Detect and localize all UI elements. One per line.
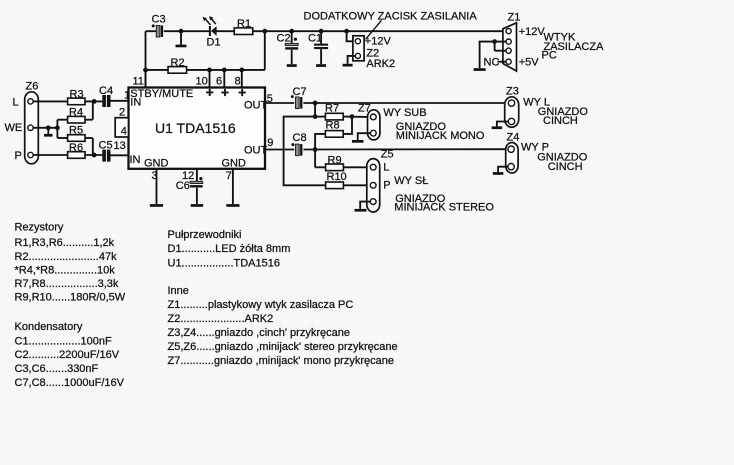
label IN bottom	[130, 154, 141, 166]
pin number 12	[182, 170, 194, 182]
wire node A to R10 route	[284, 117, 326, 186]
svg-text:Z5,Z6......gniazdo ,minijack': Z5,Z6......gniazdo ,minijack' stereo prz…	[168, 341, 398, 353]
ground at Z7	[352, 140, 364, 143]
pin number 3	[152, 170, 158, 182]
resistor R4	[57, 106, 92, 123]
wire Z2 top pin	[344, 29, 355, 41]
connector Z5	[367, 159, 380, 212]
svg-text:Z1: Z1	[508, 12, 521, 24]
capacitor C4	[99, 85, 113, 107]
svg-text:C1.................100nF: C1.................100nF	[15, 336, 112, 348]
svg-text:R5: R5	[69, 125, 83, 137]
wire pin 11 stub	[145, 70, 147, 88]
svg-text:D1: D1	[207, 37, 221, 49]
ground pin 3	[150, 204, 163, 207]
svg-text:C7,C8......1000uF/16V: C7,C8......1000uF/16V	[15, 377, 125, 389]
svg-text:R4: R4	[69, 106, 83, 118]
svg-text:C7: C7	[293, 86, 307, 98]
label IN top	[130, 97, 141, 109]
label P input	[15, 150, 22, 162]
wire pin 7 to ground	[232, 169, 234, 204]
label L at Z5	[383, 162, 389, 174]
wire Z2 bottom pin to ground	[348, 56, 355, 64]
label ARK2	[366, 58, 395, 70]
resistor R5	[57, 125, 92, 142]
resistor R8	[325, 120, 343, 138]
svg-text:GND: GND	[222, 158, 247, 170]
LED D1	[203, 16, 221, 48]
svg-text:R1,R3,R6..........1,2k: R1,R3,R6..........1,2k	[15, 237, 115, 249]
value list semiconductors and connectors	[168, 229, 398, 367]
label Z7	[358, 102, 371, 114]
capacitor C6	[176, 180, 203, 192]
pin 2 and 4 loop box	[115, 118, 128, 137]
wire R4-R5 left vertical	[56, 120, 58, 138]
ground at Z5	[355, 209, 367, 212]
wire C6 to ground	[196, 188, 198, 204]
svg-text:NC: NC	[484, 57, 500, 69]
resistor R10	[326, 171, 347, 189]
connector Z7	[368, 110, 380, 140]
ground under C6	[191, 204, 204, 207]
svg-text:Z7: Z7	[358, 102, 371, 114]
svg-text:+12V: +12V	[365, 35, 392, 47]
resistor R3	[68, 89, 85, 105]
svg-text:R9: R9	[328, 155, 342, 167]
svg-text:PC: PC	[542, 50, 557, 62]
svg-text:C5: C5	[99, 140, 113, 152]
svg-text:C6: C6	[176, 180, 190, 192]
capacitor C8	[291, 132, 306, 156]
wire P input to R6	[34, 154, 68, 156]
svg-text:4: 4	[121, 125, 127, 137]
wire L input to R3	[34, 100, 68, 102]
ground at Z3	[492, 126, 503, 129]
ground at Z4	[493, 172, 504, 175]
wire Z1 NC pin stub	[498, 61, 507, 63]
svg-text:Rezystory: Rezystory	[15, 222, 64, 234]
label GNIAZDO Z5	[395, 193, 446, 205]
ground at Z1	[474, 68, 486, 71]
label WY P	[521, 142, 549, 154]
svg-text:C1: C1	[308, 33, 322, 45]
ground under Z2	[343, 64, 353, 67]
pin number 10	[196, 75, 208, 87]
label CINCH Z4	[548, 161, 583, 173]
capacitor C2	[277, 29, 299, 64]
label NC	[484, 57, 500, 69]
wire WE to ground node	[34, 125, 60, 130]
connector Z6	[25, 92, 39, 164]
node A drop to R7	[313, 103, 325, 119]
wire pin 3 to ground	[156, 169, 158, 204]
pin number 1	[124, 90, 130, 102]
wire R6 to C5 with node	[85, 153, 102, 158]
svg-text:8: 8	[235, 75, 241, 87]
label Z6	[26, 81, 39, 93]
svg-text:GND: GND	[144, 158, 169, 170]
svg-text:MINIJACK STEREO: MINIJACK STEREO	[394, 202, 494, 214]
svg-text:Inne: Inne	[168, 285, 189, 297]
label CINCH Z3	[543, 115, 578, 127]
ground at WE	[44, 128, 53, 137]
ground under C2	[287, 64, 297, 67]
value list resistors and capacitors	[15, 222, 126, 389]
svg-text:R9,R10......180R/0,5W: R9,R10......180R/0,5W	[15, 292, 126, 304]
svg-text:R1: R1	[237, 18, 251, 30]
label Z5	[381, 149, 394, 161]
svg-text:P: P	[15, 150, 22, 162]
plus marks pins 10 6 8	[206, 89, 246, 96]
ground after C3	[176, 29, 187, 47]
svg-text:Z6: Z6	[26, 81, 39, 93]
wire pin 5 to C7	[265, 102, 294, 104]
label OUT pin5	[244, 100, 268, 112]
svg-text:WE: WE	[5, 122, 23, 134]
wire Z3 sleeve to ground	[497, 122, 509, 127]
resistor R7	[325, 103, 343, 120]
label Z1	[508, 12, 521, 24]
wire Z5 sleeve to ground	[360, 202, 370, 209]
pin number 11	[133, 75, 144, 87]
svg-text:DODATKOWY ZACISK ZASILANIA: DODATKOWY ZACISK ZASILANIA	[304, 11, 478, 23]
resistor R9	[326, 155, 344, 171]
label +5V at Z1	[519, 57, 540, 69]
svg-text:ARK2: ARK2	[366, 58, 395, 70]
svg-text:C3: C3	[152, 14, 166, 26]
svg-text:10: 10	[196, 75, 208, 87]
capacitor C7	[291, 86, 307, 109]
label Z2	[366, 47, 379, 59]
svg-text:R2.......................47k: R2.......................47k	[15, 251, 118, 263]
label Z4	[507, 132, 520, 144]
capacitor C1	[308, 29, 328, 64]
svg-text:L: L	[13, 97, 19, 109]
svg-text:C2..........2200uF/16V: C2..........2200uF/16V	[15, 349, 120, 361]
svg-text:Kondensatory: Kondensatory	[15, 321, 83, 333]
svg-text:6: 6	[216, 75, 222, 87]
svg-text:R7,R8.................3,3k: R7,R8.................3,3k	[15, 278, 119, 290]
svg-text:Z1.........plastykowy wtyk zas: Z1.........plastykowy wtyk zasilacza PC	[168, 299, 354, 311]
label DODATKOWY ZACISK ZASILANIA	[304, 11, 478, 23]
svg-text:Z4: Z4	[507, 132, 520, 144]
svg-text:11: 11	[133, 75, 144, 87]
svg-text:WY SŁ: WY SŁ	[394, 175, 428, 187]
label P at Z5	[383, 180, 390, 192]
wire C5 to pin 13	[111, 154, 129, 156]
label WY SUB	[383, 107, 426, 119]
svg-text:2: 2	[119, 107, 125, 119]
label GNIAZDO Z7	[396, 121, 447, 133]
capacitor C5	[99, 140, 113, 162]
wire pin 12 to C6	[197, 169, 203, 181]
label Z3	[506, 86, 519, 98]
svg-text:IN: IN	[130, 154, 141, 166]
wire R3 to C4 with node	[85, 99, 102, 104]
svg-text:1: 1	[124, 90, 130, 102]
pointer line to Z2 +12V	[366, 20, 382, 39]
label WTYK	[544, 32, 576, 44]
svg-text:C4: C4	[99, 85, 113, 97]
svg-text:C8: C8	[293, 132, 307, 144]
label L input	[13, 97, 19, 109]
svg-text:U1.................TDA1516: U1.................TDA1516	[168, 257, 281, 269]
wire left drop from C3 to R2 row / pin 11	[143, 31, 148, 87]
pin number 5	[267, 93, 273, 105]
label +12V at Z2	[365, 35, 392, 47]
svg-text:Pułprzewodniki: Pułprzewodniki	[168, 229, 242, 241]
svg-text:D1...........LED żółta 8mm: D1...........LED żółta 8mm	[168, 243, 291, 255]
pin number 4	[121, 125, 127, 137]
wire feedback node down to R4	[92, 101, 94, 119]
label ZASILACZA	[544, 41, 605, 53]
resistor R2	[146, 57, 265, 73]
svg-text:MINIJACK MONO: MINIJACK MONO	[396, 130, 485, 142]
label WE	[5, 122, 23, 134]
svg-text:R3: R3	[70, 89, 84, 101]
pin number 7	[226, 170, 232, 182]
resistor R6	[68, 142, 85, 158]
svg-text:+12V: +12V	[519, 26, 546, 38]
svg-text:R7: R7	[325, 103, 339, 115]
label WY L	[523, 97, 550, 109]
wire R5 to P node	[92, 138, 94, 155]
svg-text:Z3,Z4......gniazdo ,cinch' prz: Z3,Z4......gniazdo ,cinch' przykręcane	[168, 327, 350, 339]
svg-text:R2: R2	[171, 57, 185, 69]
svg-text:L: L	[383, 162, 389, 174]
svg-text:U1 TDA1516: U1 TDA1516	[155, 120, 236, 136]
svg-text:C3,C6.......330nF: C3,C6.......330nF	[15, 363, 99, 375]
wire pin 8 stub	[239, 68, 244, 88]
svg-text:*R4,*R8..............10k: *R4,*R8..............10k	[15, 264, 116, 276]
svg-text:Z7...........gniazdo ,minijack: Z7...........gniazdo ,minijack' mono prz…	[168, 355, 394, 367]
svg-text:+5V: +5V	[519, 57, 540, 69]
label U1 TDA1516	[155, 120, 236, 136]
svg-text:13: 13	[114, 140, 126, 152]
ground under C1	[316, 64, 326, 67]
wire Z4 sleeve to ground	[498, 167, 508, 172]
label PC	[542, 50, 557, 62]
label OUT pin9	[244, 145, 268, 157]
svg-text:Z5: Z5	[381, 149, 394, 161]
capacitor C3	[152, 14, 166, 38]
label GND right	[222, 158, 247, 170]
connector Z2	[353, 36, 364, 61]
svg-text:R10: R10	[327, 171, 347, 183]
label MINIJACK STEREO	[394, 202, 494, 214]
svg-text:IN: IN	[130, 97, 141, 109]
wire pin 9 to C8	[265, 149, 294, 151]
svg-text:R8: R8	[326, 120, 340, 132]
pin number 6	[216, 75, 222, 87]
wire pin 6 stub	[222, 68, 227, 88]
svg-text:OUT: OUT	[244, 145, 268, 157]
label GND left	[144, 158, 169, 170]
pin number 2	[119, 107, 125, 119]
wire R9 to Z5 L pin	[343, 166, 367, 168]
wire pin 10 stub	[207, 68, 212, 88]
svg-text:7: 7	[226, 170, 232, 182]
label STBY/MUTE	[130, 88, 193, 100]
svg-text:CINCH: CINCH	[543, 115, 578, 127]
wire +12V rail from C3 to Z1	[146, 30, 503, 32]
connector Z1 body	[503, 23, 517, 71]
svg-text:9: 9	[267, 137, 273, 149]
label MINIJACK MONO	[396, 130, 485, 142]
wire R7 to Z7 node	[343, 114, 367, 119]
svg-text:Z3: Z3	[506, 86, 519, 98]
node B drop to R9	[315, 150, 326, 168]
connector Z4	[506, 143, 518, 174]
svg-text:OUT: OUT	[244, 100, 268, 112]
svg-text:P: P	[383, 180, 390, 192]
svg-text:CINCH: CINCH	[548, 161, 583, 173]
label GNIAZDO Z4	[537, 152, 588, 164]
wire C4 to pin 1	[111, 100, 129, 102]
pin number 9	[267, 137, 273, 149]
label WY SL	[394, 175, 428, 187]
svg-text:Z2.....................ARK2: Z2.....................ARK2	[168, 313, 274, 325]
svg-text:WY SUB: WY SUB	[383, 107, 426, 119]
label GNIAZDO Z3	[538, 106, 589, 118]
label +12V at Z1	[519, 26, 546, 38]
wire C7 to Z3	[303, 101, 505, 106]
wire Z7 sleeve to ground	[358, 133, 371, 140]
wire R8 row	[315, 117, 352, 150]
op-amp U1 TDA1516 body	[129, 88, 266, 169]
resistor R1	[234, 18, 253, 35]
wire R1 right junction down to R2 row	[262, 29, 267, 70]
pin number 13	[114, 140, 126, 152]
wire R10 to Z5 P pin	[343, 184, 367, 186]
ground pin 7	[226, 204, 239, 207]
connector Z3	[505, 97, 519, 128]
wire C8 to Z4	[303, 147, 505, 152]
svg-text:R6: R6	[69, 142, 83, 154]
pin number 8	[235, 75, 241, 87]
wire Z1 middle pins to ground	[480, 39, 506, 68]
svg-text:C2: C2	[277, 33, 291, 45]
